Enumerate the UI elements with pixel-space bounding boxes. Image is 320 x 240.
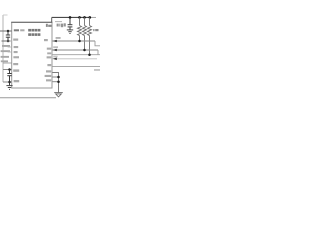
capacitor C3 [68, 17, 73, 29]
net label row5 [94, 69, 100, 71]
node junction dot F [57, 80, 60, 83]
left pin labels [13, 29, 24, 82]
bottom rule [0, 97, 56, 99]
node VL bus (left vertical wire) [2, 15, 4, 82]
wire left pin row 5 [3, 62, 12, 64]
node junction dot B [7, 40, 10, 43]
node junction dot R2 [83, 49, 86, 52]
wire SCL row [52, 49, 98, 51]
wire left pin row 3 [8, 46, 12, 48]
pin arrow 3 [53, 58, 57, 61]
wire left pin row 6 [3, 69, 12, 71]
ground GND3 [54, 93, 63, 97]
IC U1 I/O expander [11, 22, 52, 88]
power rail VCC [52, 16, 90, 18]
pin arrow 1 [53, 40, 57, 43]
node rail dot 2 [78, 16, 81, 19]
node junction dot R1 [78, 40, 81, 43]
pin arrow 2 [53, 49, 57, 52]
node rail dot 1 [69, 16, 72, 19]
resistor R3 [88, 17, 92, 54]
wire jog 2 [97, 50, 99, 55]
wire left pin row 4 [8, 51, 12, 53]
net label row2 [53, 46, 58, 48]
net label row4 [53, 56, 57, 58]
node junction dot D [8, 81, 11, 84]
wire stub top-left [3, 14, 8, 16]
right pin labels [44, 39, 51, 81]
wire jog 1 [95, 41, 100, 46]
node junction dot C [8, 68, 11, 71]
wire AD0 stub [52, 81, 58, 83]
ground GND2 [67, 30, 73, 34]
wire INT row [52, 54, 100, 56]
node junction dot A [7, 30, 10, 33]
wire Vcc pin stub [51, 17, 53, 22]
wire C1 bottom [2, 40, 11, 42]
net label row1 [56, 37, 61, 39]
node junction dot E [57, 76, 60, 79]
wire AD1 stub [52, 76, 58, 78]
node junction dot R3 [88, 53, 91, 56]
capacitor C3 value 0.1uF [55, 21, 62, 23]
capacitor C1 [6, 31, 10, 41]
wire row 5 [52, 66, 100, 68]
wire left pin row 7 [3, 81, 12, 83]
capacitor C2 [7, 70, 11, 86]
resistor R2 [83, 17, 87, 50]
pin label Vcc [46, 24, 52, 27]
ground GND1 [6, 86, 12, 90]
wire left pin 1 [0, 30, 12, 32]
resistor R1 [78, 17, 82, 41]
node rail dot 3 [83, 16, 86, 19]
left annotation texts [1, 45, 10, 62]
wire AD2 jog down [52, 73, 58, 93]
node rail dot 4 [89, 16, 92, 19]
value label 10k [93, 29, 94, 31]
background [0, 0, 100, 100]
wire SDA row [52, 40, 95, 42]
wire row 4 [52, 58, 97, 60]
part number label MAX7311 [28, 29, 40, 36]
